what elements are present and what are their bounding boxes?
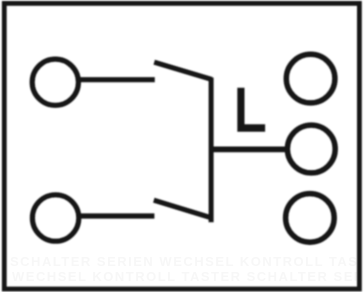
terminal circle top-right	[286, 54, 335, 103]
terminal circle bottom-right	[286, 194, 335, 243]
terminal circle L middle-right	[287, 125, 335, 173]
label L	[237, 88, 265, 132]
wire from bottom-left terminal	[79, 213, 154, 218]
svg-text:WECHSEL KONTROLL TASTER SCHALT: WECHSEL KONTROLL TASTER SCHALTER SERIEN	[12, 269, 364, 284]
terminal circle top-left	[32, 59, 78, 105]
wire to L terminal	[211, 147, 287, 153]
switch common bar	[209, 78, 214, 223]
switch blade upper	[154, 62, 212, 79]
switch blade lower	[154, 200, 212, 218]
wire from top-left terminal	[78, 77, 155, 82]
svg-text:SCHALTER SERIEN WECHSEL KONTRO: SCHALTER SERIEN WECHSEL KONTROLL TASTER	[10, 254, 364, 269]
terminal circle bottom-left	[32, 195, 78, 241]
